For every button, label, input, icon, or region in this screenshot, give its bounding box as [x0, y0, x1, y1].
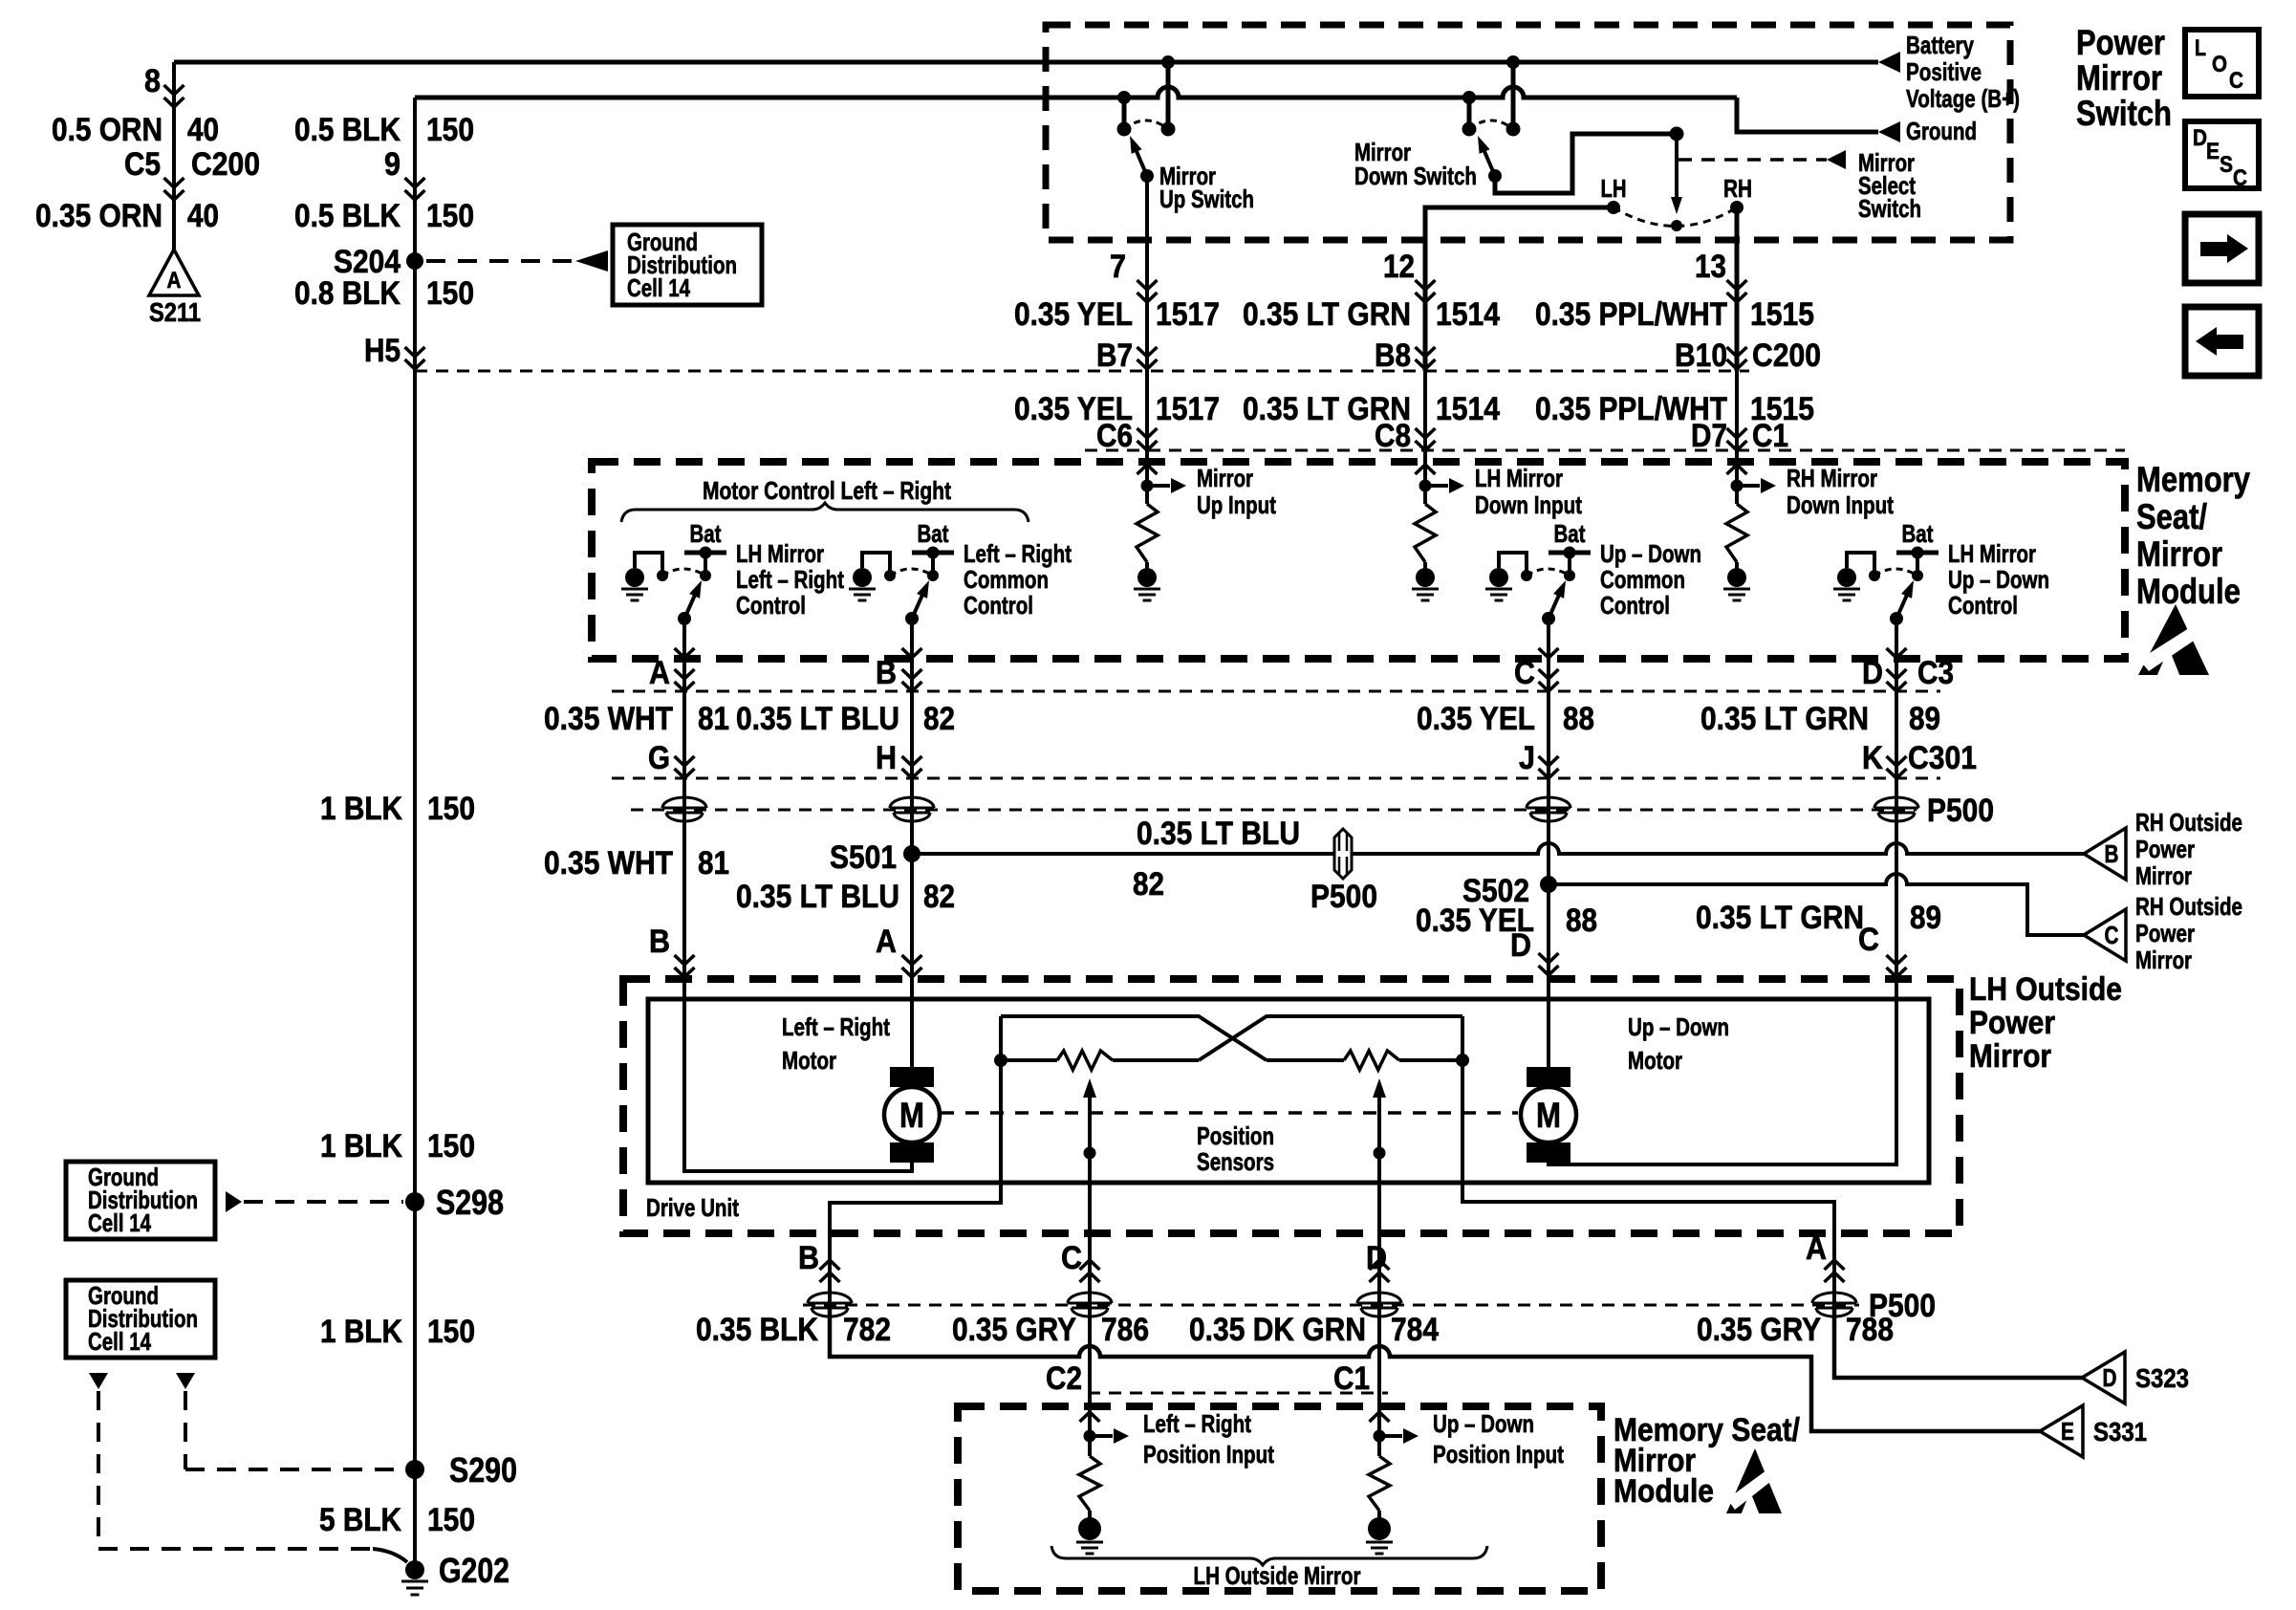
- svg-text:0.5 BLK: 0.5 BLK: [294, 112, 401, 148]
- connector C2/C1 dashed line: [1088, 1392, 1388, 1395]
- svg-text:Bat: Bat: [1902, 519, 1934, 548]
- svg-text:B10: B10: [1675, 337, 1727, 374]
- svg-text:12: 12: [1383, 249, 1415, 285]
- svg-text:0.35 WHT: 0.35 WHT: [544, 701, 673, 737]
- arrow to dashed drop 1: [89, 1373, 108, 1389]
- svg-text:K: K: [1862, 740, 1883, 776]
- svg-text:B: B: [649, 924, 670, 960]
- svg-text:Left – Right: Left – Right: [736, 565, 844, 594]
- svg-text:C: C: [1514, 655, 1535, 691]
- ESD symbol (module): [2138, 604, 2209, 677]
- svg-text:Position Input: Position Input: [1143, 1440, 1274, 1469]
- svg-text:1517: 1517: [1156, 296, 1220, 333]
- contact ground side of Mirror Up Switch: [1117, 122, 1132, 137]
- svg-text:D: D: [1510, 927, 1531, 964]
- svg-text:H5: H5: [364, 333, 401, 369]
- svg-text:LH Outside Mirror: LH Outside Mirror: [1194, 1561, 1361, 1590]
- connector C301 dashed line: [612, 777, 1940, 780]
- svg-text:Position: Position: [1197, 1121, 1274, 1150]
- box arrow left: [2185, 307, 2259, 376]
- grommet P500 wire 782: [808, 1293, 852, 1303]
- svg-text:0.8 BLK: 0.8 BLK: [294, 275, 401, 312]
- wire from switch Up-Down Common Control to module pin: [1547, 619, 1550, 659]
- wire battery tap down Mirror Down Switch: [1511, 62, 1516, 125]
- svg-text:5 BLK: 5 BLK: [319, 1502, 401, 1538]
- dashed mechanical link motors to position sensors: [941, 1111, 1518, 1115]
- svg-text:Battery: Battery: [1906, 31, 1974, 59]
- svg-text:Power: Power: [1969, 1005, 2055, 1041]
- svg-text:Drive Unit: Drive Unit: [646, 1193, 739, 1222]
- svg-text:Voltage (B+): Voltage (B+): [1906, 84, 2020, 113]
- svg-text:C200: C200: [191, 146, 260, 183]
- svg-text:M: M: [1536, 1096, 1561, 1135]
- svg-text:Module: Module: [2136, 572, 2241, 611]
- contact ground side of Mirror Down Switch: [1462, 122, 1477, 137]
- wire 0.35 BLK 782 to S331 (E): [830, 1305, 2040, 1431]
- svg-text:9: 9: [384, 146, 401, 183]
- contact RH: [1730, 201, 1744, 214]
- wiper Mirror Select Switch: [1675, 134, 1679, 201]
- grommet P500 wire 81: [662, 797, 706, 808]
- box LH Outside Power Mirror (dashed): [623, 979, 1960, 1233]
- dashed throw arc Mirror Select Switch: [1614, 207, 1737, 227]
- svg-text:0.5 ORN: 0.5 ORN: [52, 112, 162, 148]
- svg-text:Motor: Motor: [1628, 1046, 1682, 1075]
- connector C200 dashed line: [415, 370, 1749, 373]
- wire 784 down to module C1: [1377, 1305, 1381, 1406]
- wire ORN vertical (circuit 40): [172, 62, 176, 250]
- svg-text:D: D: [1366, 1240, 1387, 1276]
- connector C3 dashed line: [612, 690, 1940, 693]
- wire from switch LH Mirror Up-Down Control to module pin: [1895, 619, 1898, 659]
- svg-text:Mirror: Mirror: [1969, 1038, 2051, 1075]
- svg-text:Down Input: Down Input: [1787, 490, 1894, 519]
- wire 1515 below C200: [1735, 371, 1739, 462]
- svg-text:C8: C8: [1375, 418, 1411, 454]
- svg-text:Down Switch: Down Switch: [1354, 162, 1477, 190]
- svg-text:150: 150: [427, 1128, 475, 1164]
- node ground tap for Mirror Down Switch: [1462, 91, 1476, 104]
- wire 8 ORN battery feed (horizontal from C5 wire to Power Mirror Switch): [174, 60, 1878, 65]
- wire ground tap down: [1122, 98, 1127, 125]
- wire sensor right rail to pin A: [1462, 1016, 1834, 1233]
- grommet P500 wire 786: [1068, 1293, 1112, 1303]
- node sensor right rail: [1456, 1054, 1469, 1067]
- svg-text:C: C: [2105, 921, 2119, 949]
- svg-text:Power: Power: [2076, 23, 2165, 62]
- svg-text:A: A: [649, 655, 670, 691]
- wire pin D into up-down motor: [1547, 979, 1550, 1069]
- contact Bat side of Mirror Down Switch: [1506, 122, 1521, 137]
- svg-text:Bat: Bat: [690, 519, 722, 548]
- ground for LH Mirror Down Input: [1416, 568, 1435, 587]
- svg-text:0.5 BLK: 0.5 BLK: [294, 198, 401, 234]
- dashed drop wire to G202: [97, 1391, 100, 1549]
- svg-text:S: S: [2220, 152, 2233, 178]
- svg-text:S323: S323: [2135, 1363, 2189, 1393]
- svg-text:C3: C3: [1917, 655, 1954, 691]
- resistor Up-Down Position Input: [1370, 1412, 1390, 1422]
- connector arrow on wire 40 top: [164, 85, 184, 95]
- svg-text:Switch: Switch: [2076, 94, 2172, 133]
- grommet P500 wire 89: [1874, 797, 1918, 808]
- svg-text:Down Input: Down Input: [1475, 490, 1582, 519]
- box Ground Distribution Cell 14 (S204): [613, 225, 762, 305]
- svg-text:E: E: [2206, 139, 2220, 164]
- svg-text:Mirror: Mirror: [1197, 464, 1253, 492]
- svg-text:D: D: [1862, 655, 1883, 691]
- svg-text:0.35 DK GRN: 0.35 DK GRN: [1189, 1312, 1366, 1348]
- svg-text:0.35 GRY: 0.35 GRY: [952, 1312, 1076, 1348]
- resistor input RH Mirror Down Input: [1727, 465, 1747, 474]
- box DESC: [2185, 121, 2259, 188]
- svg-text:40: 40: [187, 198, 219, 234]
- svg-text:Mirror: Mirror: [2076, 58, 2162, 98]
- svg-text:0.35 BLK: 0.35 BLK: [696, 1312, 818, 1348]
- dashed reference line to S298: [226, 1191, 242, 1212]
- svg-text:1 BLK: 1 BLK: [320, 1314, 402, 1350]
- wire 0.35 LT GRN 89 to RH mirror (C): [1549, 874, 2084, 935]
- svg-text:0.35 GRY: 0.35 GRY: [1697, 1312, 1821, 1348]
- svg-text:LH Mirror: LH Mirror: [736, 539, 824, 568]
- svg-text:150: 150: [427, 1502, 475, 1538]
- svg-text:788: 788: [1846, 1312, 1894, 1348]
- svg-text:0.35 YEL: 0.35 YEL: [1014, 296, 1133, 333]
- svg-text:Memory: Memory: [2136, 460, 2250, 499]
- svg-text:Switch: Switch: [1858, 194, 1921, 223]
- svg-text:O: O: [2212, 52, 2227, 77]
- switch LH Mirror Up-Down Control: [1837, 568, 1856, 587]
- wire sensor left rail to pin B: [830, 1016, 1001, 1233]
- svg-text:M: M: [899, 1096, 924, 1135]
- triangle C RH Outside Power Mirror: [2084, 909, 2126, 961]
- svg-text:1515: 1515: [1750, 296, 1814, 333]
- switch LH Mirror Left-Right Control: [625, 568, 644, 587]
- wire Mirror Down Switch to select common: [1495, 134, 1677, 193]
- brace Motor Control Left-Right: [621, 503, 1029, 522]
- box Memory Seat Mirror Module (dashed): [592, 462, 2125, 659]
- svg-text:0.35 ORN: 0.35 ORN: [35, 198, 162, 234]
- box Ground Distribution Cell 14 (S290/G202): [66, 1280, 215, 1358]
- svg-text:81: 81: [698, 845, 729, 881]
- node select common: [1670, 127, 1684, 141]
- wire from switch LH Mirror Left-Right Control to module pin: [682, 619, 686, 659]
- svg-text:C6: C6: [1096, 418, 1133, 454]
- box drive unit (solid): [648, 999, 1929, 1183]
- svg-text:Up – Down: Up – Down: [1628, 1012, 1729, 1041]
- svg-text:1517: 1517: [1156, 391, 1220, 427]
- svg-text:Bat: Bat: [1554, 519, 1586, 548]
- grommet P500 wire 784: [1357, 1293, 1401, 1303]
- svg-text:Control: Control: [1600, 591, 1670, 620]
- svg-text:Left – Right: Left – Right: [782, 1012, 890, 1041]
- box arrow right: [2185, 214, 2259, 283]
- svg-text:8: 8: [144, 63, 161, 99]
- wire from switch Left-Right Common Control to module pin: [910, 619, 914, 659]
- wire ground tap down: [1467, 98, 1472, 125]
- wire RH contact to pin 13: [1735, 207, 1740, 371]
- box Ground Distribution Cell 14 (S298): [66, 1162, 215, 1239]
- svg-text:C301: C301: [1908, 740, 1977, 776]
- svg-text:E: E: [2061, 1417, 2074, 1446]
- splice S290: [405, 1460, 424, 1479]
- node ground tap for Mirror Up Switch: [1117, 91, 1131, 104]
- svg-text:0.35 LT GRN: 0.35 LT GRN: [1696, 900, 1864, 936]
- svg-text:786: 786: [1101, 1312, 1149, 1348]
- motor M up-down: [1527, 1067, 1570, 1087]
- svg-text:Up – Down: Up – Down: [1948, 565, 2049, 594]
- wire 0.35 LT BLU 82 to RH mirror (B): [912, 843, 2084, 854]
- box Memory Seat Mirror Module lower (dashed): [958, 1406, 1601, 1591]
- svg-text:S211: S211: [149, 297, 201, 327]
- svg-text:RH Outside: RH Outside: [2135, 892, 2242, 921]
- svg-text:82: 82: [923, 879, 955, 915]
- terminal Battery Positive Voltage (B+): [1878, 52, 1900, 73]
- wiper left position sensor: [1083, 1078, 1096, 1098]
- svg-text:89: 89: [1910, 900, 1941, 936]
- svg-text:P500: P500: [1927, 793, 1994, 829]
- svg-text:150: 150: [427, 1314, 475, 1350]
- svg-text:Bat: Bat: [918, 519, 949, 548]
- svg-text:Up – Down: Up – Down: [1600, 539, 1701, 568]
- position sensor feed rail (top) with crossover: [1001, 1016, 1267, 1060]
- svg-text:Left – Right: Left – Right: [1143, 1409, 1251, 1438]
- position sensor resistor left: [1001, 1058, 1057, 1062]
- svg-text:1 BLK: 1 BLK: [320, 791, 402, 827]
- svg-text:C: C: [2233, 165, 2247, 191]
- svg-text:0.35 LT GRN: 0.35 LT GRN: [1700, 701, 1869, 737]
- in-line grommet P500 on circuit 82: [1334, 829, 1352, 879]
- motor M left-right: [890, 1067, 934, 1087]
- svg-text:B: B: [798, 1240, 819, 1276]
- svg-text:P500: P500: [1310, 879, 1377, 915]
- svg-text:A: A: [1806, 1230, 1827, 1267]
- position sensor resistor right: [1267, 1058, 1344, 1062]
- ground for Left-Right Position Input: [1078, 1517, 1101, 1540]
- svg-text:LH Mirror: LH Mirror: [1475, 464, 1563, 492]
- svg-text:0.35 LT BLU: 0.35 LT BLU: [736, 879, 899, 915]
- svg-text:1 BLK: 1 BLK: [320, 1128, 402, 1164]
- svg-text:Power: Power: [2135, 919, 2195, 947]
- svg-text:Up – Down: Up – Down: [1433, 1409, 1534, 1438]
- svg-text:0.35 LT BLU: 0.35 LT BLU: [736, 701, 899, 737]
- svg-text:S331: S331: [2093, 1417, 2147, 1447]
- svg-text:0.35 LT GRN: 0.35 LT GRN: [1243, 296, 1411, 333]
- svg-text:Positive: Positive: [1906, 57, 1982, 86]
- svg-text:B8: B8: [1375, 337, 1411, 374]
- svg-text:L: L: [2195, 35, 2206, 61]
- svg-text:0.35 LT BLU: 0.35 LT BLU: [1137, 816, 1300, 852]
- contact Bat side of Mirror Up Switch: [1161, 122, 1176, 137]
- svg-text:Sensors: Sensors: [1197, 1147, 1274, 1176]
- svg-text:82: 82: [923, 701, 955, 737]
- switch Up-Down Common Control: [1489, 568, 1508, 587]
- svg-text:H: H: [876, 740, 897, 776]
- contact select wiper: [1671, 220, 1682, 231]
- svg-text:C: C: [1061, 1240, 1082, 1276]
- svg-text:Up Switch: Up Switch: [1159, 185, 1254, 213]
- svg-text:C5: C5: [124, 146, 161, 183]
- svg-text:0.35 PPL/WHT: 0.35 PPL/WHT: [1535, 296, 1727, 333]
- svg-text:13: 13: [1695, 249, 1726, 285]
- svg-text:82: 82: [1133, 866, 1164, 903]
- wire pin C to up-down motor low side: [1549, 979, 1896, 1164]
- svg-text:40: 40: [187, 112, 219, 148]
- ground G202: [405, 1560, 424, 1579]
- svg-text:A: A: [876, 924, 897, 960]
- node battery tap for Mirror Down Switch: [1506, 55, 1520, 69]
- svg-text:Mirror: Mirror: [2136, 534, 2222, 574]
- svg-text:D: D: [2193, 125, 2207, 151]
- ground for Up-Down Position Input: [1368, 1517, 1391, 1540]
- svg-text:S290: S290: [449, 1450, 517, 1490]
- svg-text:0.35 YEL: 0.35 YEL: [1417, 701, 1535, 737]
- svg-text:B7: B7: [1096, 337, 1133, 374]
- svg-text:G202: G202: [439, 1551, 509, 1590]
- svg-text:S298: S298: [436, 1183, 504, 1222]
- svg-text:150: 150: [427, 791, 475, 827]
- dashed throw arc Mirror Up Switch: [1124, 120, 1168, 129]
- dashed reference line S204 to Ground Distribution: [426, 259, 575, 263]
- connector P500 dashed line (lower): [803, 1304, 1859, 1307]
- wire module pin A to drive unit: [682, 659, 686, 979]
- svg-text:Motor Control Left – Right: Motor Control Left – Right: [703, 476, 951, 505]
- svg-text:Left – Right: Left – Right: [964, 539, 1072, 568]
- svg-text:Cell 14: Cell 14: [627, 273, 690, 302]
- svg-text:RH Outside: RH Outside: [2135, 808, 2242, 837]
- triangle D S323: [2082, 1352, 2125, 1403]
- wire pin A into left-right motor: [910, 979, 914, 1069]
- triangle B RH Outside Power Mirror: [2084, 828, 2126, 880]
- svg-text:Seat/: Seat/: [2136, 497, 2207, 536]
- svg-text:89: 89: [1909, 701, 1940, 737]
- wire 786 down to module C2: [1088, 1305, 1092, 1406]
- wire module pin C to drive unit: [1547, 659, 1550, 979]
- svg-text:Power: Power: [2135, 835, 2195, 863]
- svg-text:1514: 1514: [1436, 391, 1500, 427]
- svg-text:RH Mirror: RH Mirror: [1787, 464, 1877, 492]
- wire module pin D to drive unit: [1895, 659, 1898, 979]
- dashed drop wire to S290: [184, 1391, 187, 1469]
- brace LH Outside Mirror: [1051, 1546, 1487, 1565]
- wire pin B to left-right motor low side: [684, 979, 912, 1171]
- svg-text:LH Outside: LH Outside: [1969, 971, 2122, 1008]
- box LOC: [2185, 30, 2259, 97]
- svg-text:Control: Control: [1948, 591, 2018, 620]
- wire 0.35 GRY 788 to S323 (D): [1834, 1305, 2082, 1378]
- svg-text:Motor: Motor: [782, 1046, 836, 1075]
- svg-text:782: 782: [843, 1312, 891, 1348]
- svg-text:C1: C1: [1333, 1360, 1370, 1397]
- svg-text:LH Mirror: LH Mirror: [1948, 539, 2036, 568]
- svg-text:S501: S501: [830, 839, 897, 876]
- svg-text:B: B: [876, 655, 897, 691]
- connector C1 dashed line: [1085, 449, 2125, 452]
- svg-text:C: C: [2229, 68, 2243, 94]
- svg-text:J: J: [1519, 740, 1535, 776]
- grommet P500 wire 82: [890, 797, 934, 808]
- wire pin 7 output: [1145, 176, 1149, 371]
- svg-text:Common: Common: [1600, 565, 1685, 594]
- svg-text:88: 88: [1566, 903, 1597, 939]
- terminal Ground (step-down wire): [1737, 98, 1878, 132]
- svg-text:C200: C200: [1752, 337, 1821, 374]
- svg-text:150: 150: [426, 112, 474, 148]
- wire 0.5 BLK 150 ground feed (horizontal to Power Mirror Switch): [415, 87, 1737, 98]
- wiper right position sensor: [1373, 1078, 1386, 1098]
- ESD symbol (lower module): [1726, 1448, 1782, 1515]
- wire LH contact to pin 12: [1425, 207, 1614, 371]
- svg-text:C2: C2: [1046, 1360, 1082, 1397]
- svg-text:B: B: [2105, 839, 2119, 868]
- grommet P500 wire 788: [1812, 1293, 1856, 1303]
- svg-text:0.35 WHT: 0.35 WHT: [544, 845, 673, 881]
- svg-text:Cell 14: Cell 14: [88, 1208, 151, 1237]
- svg-text:Common: Common: [964, 565, 1049, 594]
- svg-text:D: D: [2103, 1363, 2117, 1392]
- svg-text:Cell 14: Cell 14: [88, 1327, 151, 1356]
- switch Left-Right Common Control: [853, 568, 872, 587]
- svg-text:RH: RH: [1723, 174, 1752, 203]
- node battery tap for Mirror Up Switch: [1161, 55, 1175, 69]
- svg-text:88: 88: [1563, 701, 1594, 737]
- svg-text:Control: Control: [964, 591, 1033, 620]
- wire module pin B to drive unit: [910, 659, 914, 979]
- resistor input LH Mirror Down Input: [1416, 465, 1436, 474]
- svg-text:LH: LH: [1601, 174, 1627, 203]
- wire battery tap down Mirror Up Switch: [1166, 62, 1171, 125]
- svg-text:1514: 1514: [1436, 296, 1500, 333]
- node sensor left rail: [994, 1054, 1007, 1067]
- svg-text:150: 150: [426, 198, 474, 234]
- svg-text:Control: Control: [736, 591, 806, 620]
- svg-text:Position Input: Position Input: [1433, 1440, 1564, 1469]
- svg-text:Up Input: Up Input: [1197, 490, 1276, 519]
- switch arm Mirror Up Switch: [1136, 149, 1147, 176]
- svg-text:Module: Module: [1614, 1473, 1714, 1510]
- dashed reference line Mirror Select Switch: [1679, 158, 1827, 162]
- svg-text:C1: C1: [1752, 418, 1788, 454]
- svg-text:Ground: Ground: [1906, 117, 1977, 145]
- wire 1517 below C200: [1145, 371, 1149, 462]
- splice S298: [405, 1192, 424, 1211]
- box Power Mirror Switch (dashed): [1046, 25, 2010, 240]
- dashed throw arc Mirror Down Switch: [1469, 120, 1513, 129]
- svg-text:C: C: [1858, 922, 1879, 958]
- resistor Left-Right Position Input: [1080, 1412, 1100, 1422]
- svg-text:G: G: [648, 740, 670, 776]
- triangle E S331: [2040, 1405, 2083, 1457]
- connector P500 dashed line (upper): [631, 809, 1917, 812]
- svg-text:81: 81: [698, 701, 729, 737]
- wire BLK vertical (circuit 150) upper: [413, 98, 417, 1570]
- ground for Mirror Up Input: [1137, 568, 1157, 587]
- svg-text:A: A: [167, 268, 182, 294]
- svg-text:D7: D7: [1691, 418, 1727, 454]
- svg-text:7: 7: [1110, 249, 1126, 285]
- svg-text:784: 784: [1391, 1312, 1439, 1348]
- contact LH: [1607, 201, 1620, 214]
- svg-text:150: 150: [426, 275, 474, 312]
- splice sleeve S211 triangle A: [149, 250, 199, 295]
- svg-text:Mirror: Mirror: [2135, 946, 2192, 974]
- grommet P500 wire 88: [1527, 797, 1570, 808]
- wire 1514 below C200: [1423, 371, 1427, 462]
- switch arm Mirror Down Switch: [1484, 149, 1495, 176]
- resistor input Mirror Up Input: [1137, 465, 1158, 474]
- svg-text:Mirror: Mirror: [2135, 861, 2192, 890]
- arrow to dashed drop 2: [176, 1373, 195, 1389]
